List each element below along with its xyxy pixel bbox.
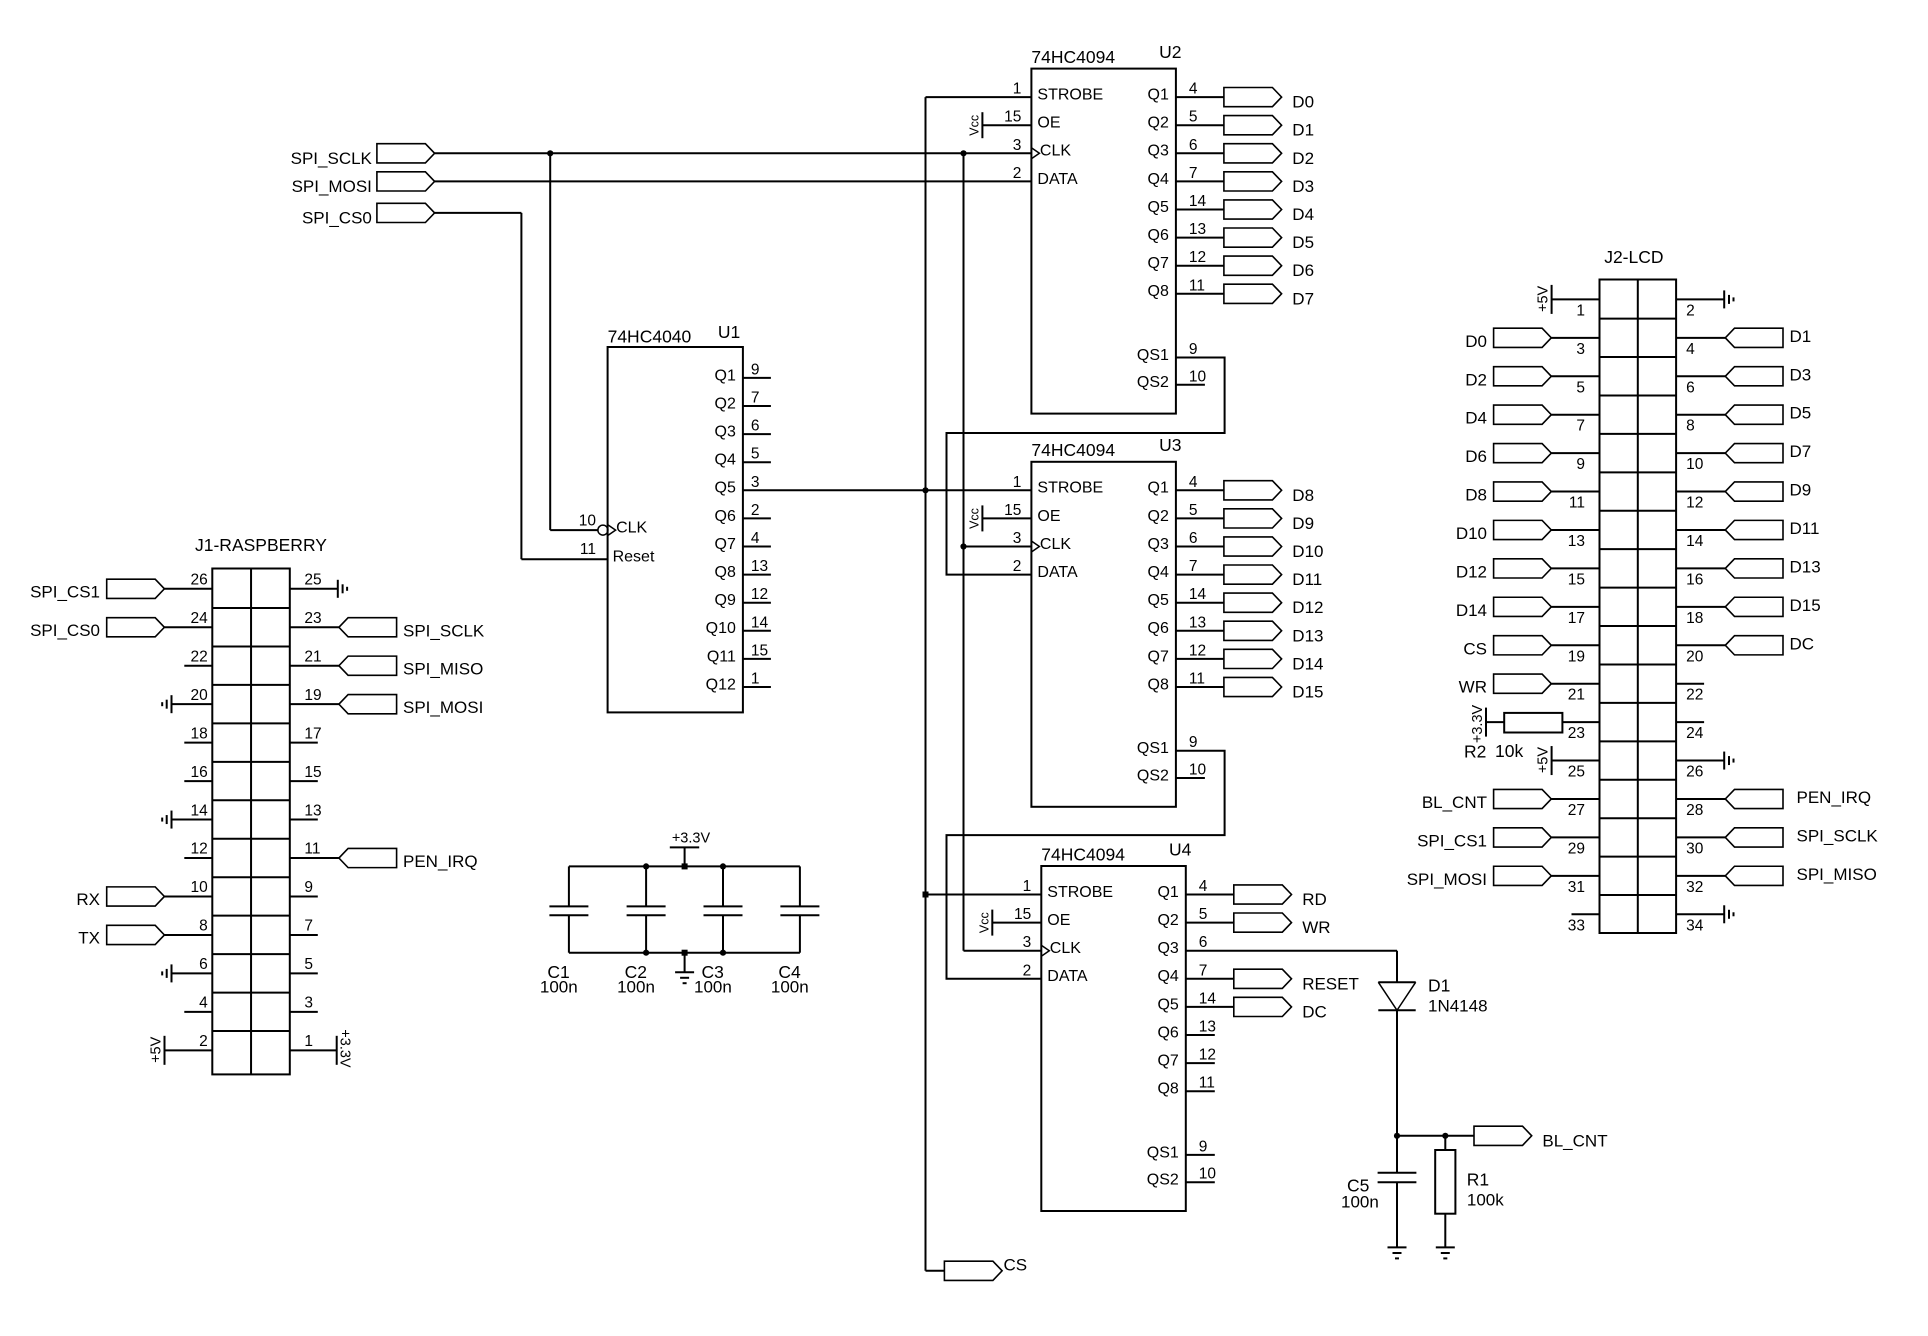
svg-text:6: 6 bbox=[1199, 934, 1208, 951]
svg-text:23: 23 bbox=[304, 610, 321, 627]
U2 pin 10 QS2 bbox=[1176, 384, 1205, 386]
node U4 STROBE tap bbox=[923, 892, 929, 898]
U2 pin 3 CLK bbox=[1031, 148, 1039, 159]
U1 pin 7 Q2 bbox=[743, 405, 771, 407]
svg-text:15: 15 bbox=[1004, 109, 1021, 126]
svg-text:Q3: Q3 bbox=[715, 424, 736, 441]
ground at J1 pin 14 bbox=[172, 819, 213, 821]
svg-text:74HC4094: 74HC4094 bbox=[1031, 47, 1115, 67]
ground at J2 pin 26 bbox=[1676, 760, 1724, 762]
svg-text:D6: D6 bbox=[1292, 261, 1314, 280]
svg-text:4: 4 bbox=[1189, 81, 1198, 98]
svg-text:13: 13 bbox=[1568, 533, 1585, 550]
svg-text:15: 15 bbox=[1014, 906, 1031, 923]
node U1 Q5 / U3 STROBE junction bbox=[922, 487, 928, 493]
svg-text:10: 10 bbox=[579, 512, 597, 529]
ground below R1 bbox=[1444, 1214, 1446, 1248]
svg-text:Vcc: Vcc bbox=[967, 115, 981, 136]
svg-text:DATA: DATA bbox=[1047, 968, 1088, 985]
svg-text:100n: 100n bbox=[617, 978, 655, 997]
svg-text:U1: U1 bbox=[718, 322, 740, 342]
svg-text:PEN_IRQ: PEN_IRQ bbox=[403, 852, 478, 871]
svg-text:OE: OE bbox=[1047, 912, 1070, 929]
net flag D7 bbox=[1725, 444, 1783, 463]
net flag D2 bbox=[1494, 367, 1552, 386]
net flag SPI_CS0 (input) bbox=[377, 203, 435, 222]
power +3.3V feeding rail bbox=[670, 846, 699, 848]
svg-text:2: 2 bbox=[199, 1033, 208, 1050]
U4 Q2 wire to flag bbox=[1186, 922, 1234, 924]
svg-text:U3: U3 bbox=[1159, 435, 1181, 455]
wire D1 cathode down to BL_CNT node bbox=[1396, 1010, 1398, 1136]
svg-text:J2-LCD: J2-LCD bbox=[1604, 247, 1663, 267]
svg-text:Q3: Q3 bbox=[1148, 536, 1169, 553]
svg-text:D10: D10 bbox=[1456, 524, 1487, 543]
net flag SPI_CS1 bbox=[1494, 828, 1552, 847]
svg-text:D9: D9 bbox=[1790, 481, 1812, 500]
svg-text:QS2: QS2 bbox=[1137, 767, 1169, 784]
U1 pin 13 Q8 bbox=[743, 574, 771, 576]
svg-text:SPI_MOSI: SPI_MOSI bbox=[292, 177, 372, 196]
ground at J1 pin 20 bbox=[172, 703, 213, 705]
svg-text:14: 14 bbox=[191, 802, 209, 819]
net flag RD (output) bbox=[1234, 885, 1292, 904]
net flag D4 (output) bbox=[1224, 200, 1282, 219]
node C3 bottom rail bbox=[720, 950, 726, 956]
svg-text:+5V: +5V bbox=[1536, 285, 1552, 312]
net flag D10 bbox=[1494, 520, 1552, 539]
svg-text:Q6: Q6 bbox=[1157, 1024, 1178, 1041]
resistor R2 10k bbox=[1504, 713, 1562, 733]
net flag D6 bbox=[1494, 444, 1552, 463]
svg-text:20: 20 bbox=[1686, 648, 1704, 665]
svg-text:Q5: Q5 bbox=[1157, 996, 1178, 1013]
svg-text:3: 3 bbox=[1013, 137, 1022, 154]
IC U2 74HC4094 body bbox=[1031, 69, 1176, 414]
svg-text:D7: D7 bbox=[1790, 442, 1812, 461]
svg-text:2: 2 bbox=[1013, 165, 1022, 182]
svg-text:Q1: Q1 bbox=[1157, 884, 1178, 901]
svg-text:CS: CS bbox=[1463, 639, 1487, 658]
svg-text:R1: R1 bbox=[1467, 1169, 1489, 1189]
svg-text:J1-RASPBERRY: J1-RASPBERRY bbox=[195, 535, 327, 555]
ground below C5 bbox=[1396, 1182, 1398, 1247]
wire U1 Q5 to U3 STROBE bbox=[743, 489, 1032, 491]
power +3.3V at J1 pin 1 bbox=[290, 1049, 337, 1051]
U4 Q6 stub bbox=[1186, 1034, 1215, 1036]
svg-text:D3: D3 bbox=[1292, 177, 1314, 196]
svg-text:D9: D9 bbox=[1292, 514, 1314, 533]
svg-text:Q6: Q6 bbox=[1148, 620, 1169, 637]
svg-text:4: 4 bbox=[1189, 474, 1198, 491]
svg-text:D10: D10 bbox=[1292, 542, 1323, 561]
node ground stem / bottom rail bbox=[682, 950, 688, 956]
svg-text:100n: 100n bbox=[540, 978, 578, 997]
svg-text:D7: D7 bbox=[1292, 289, 1314, 308]
svg-text:12: 12 bbox=[1199, 1047, 1216, 1064]
net flag PEN_IRQ bbox=[1725, 789, 1783, 808]
svg-text:15: 15 bbox=[1004, 502, 1021, 519]
net flag D13 bbox=[1725, 559, 1783, 578]
svg-text:+3.3V: +3.3V bbox=[672, 831, 711, 847]
net flag D12 bbox=[1494, 559, 1552, 578]
svg-text:12: 12 bbox=[1189, 642, 1206, 659]
svg-text:Q7: Q7 bbox=[1148, 255, 1169, 272]
power +5V at J2 pin 25 bbox=[1552, 760, 1600, 762]
svg-text:16: 16 bbox=[191, 764, 208, 781]
svg-text:5: 5 bbox=[1189, 502, 1198, 519]
svg-text:1: 1 bbox=[1013, 474, 1022, 491]
svg-text:+3.3V: +3.3V bbox=[1470, 704, 1486, 743]
power +5V at J1 pin 2 bbox=[165, 1049, 213, 1051]
svg-text:1: 1 bbox=[1013, 81, 1022, 98]
svg-text:10: 10 bbox=[1189, 368, 1207, 385]
svg-text:D1: D1 bbox=[1428, 976, 1450, 996]
svg-text:11: 11 bbox=[1189, 671, 1205, 688]
svg-text:3: 3 bbox=[304, 995, 313, 1012]
wire U2 QS1 to U3 DATA bbox=[947, 358, 1225, 575]
net flag DC (output) bbox=[1234, 997, 1292, 1016]
node C3 top rail bbox=[720, 863, 726, 869]
svg-text:13: 13 bbox=[751, 558, 768, 575]
svg-text:Q7: Q7 bbox=[715, 536, 736, 553]
U4 pin 10 QS2 bbox=[1186, 1181, 1215, 1183]
capacitor C1 100n bbox=[568, 866, 570, 906]
svg-text:2: 2 bbox=[751, 502, 760, 519]
svg-text:WR: WR bbox=[1459, 678, 1487, 697]
wire U2 STROBE bbox=[926, 96, 1032, 98]
svg-text:3: 3 bbox=[751, 474, 760, 491]
net flag BL_CNT (output) bbox=[1474, 1126, 1532, 1145]
wire SPI_SCLK horizontal to U2 CLK bbox=[435, 152, 1032, 154]
svg-text:14: 14 bbox=[1199, 990, 1217, 1007]
U1 pin 14 Q10 bbox=[743, 630, 771, 632]
net flag SPI_MOSI (input) bbox=[377, 172, 435, 191]
svg-text:D3: D3 bbox=[1790, 365, 1812, 384]
svg-text:15: 15 bbox=[1568, 571, 1585, 588]
svg-text:DATA: DATA bbox=[1037, 171, 1078, 188]
svg-text:PEN_IRQ: PEN_IRQ bbox=[1797, 788, 1872, 807]
svg-text:RX: RX bbox=[76, 890, 100, 909]
svg-text:DATA: DATA bbox=[1037, 564, 1078, 581]
U4 Q7 stub bbox=[1186, 1062, 1215, 1064]
svg-text:31: 31 bbox=[1568, 879, 1585, 896]
U4 pin 3 CLK bbox=[1041, 945, 1049, 956]
svg-text:RD: RD bbox=[1302, 890, 1327, 909]
svg-text:100n: 100n bbox=[694, 978, 732, 997]
svg-text:CLK: CLK bbox=[1050, 940, 1081, 957]
svg-text:D14: D14 bbox=[1456, 601, 1487, 620]
IC U1 74HC4040 body bbox=[608, 347, 743, 712]
net flag D1 (output) bbox=[1224, 116, 1282, 135]
svg-text:BL_CNT: BL_CNT bbox=[1422, 793, 1487, 812]
svg-text:STROBE: STROBE bbox=[1037, 480, 1103, 497]
svg-text:D4: D4 bbox=[1292, 205, 1314, 224]
svg-text:13: 13 bbox=[1189, 614, 1206, 631]
net flag D10 (output) bbox=[1224, 537, 1282, 556]
svg-text:Q5: Q5 bbox=[1148, 592, 1169, 609]
net flag D2 (output) bbox=[1224, 144, 1282, 163]
U1 pin 4 Q7 bbox=[743, 546, 771, 548]
svg-text:5: 5 bbox=[1189, 109, 1198, 126]
svg-text:Q2: Q2 bbox=[715, 395, 736, 412]
svg-text:Q8: Q8 bbox=[1148, 676, 1169, 693]
net flag D15 bbox=[1725, 597, 1783, 616]
node C2 bottom rail bbox=[643, 950, 649, 956]
svg-text:QS1: QS1 bbox=[1137, 740, 1169, 757]
wire U3 QS1 to U4 DATA bbox=[947, 751, 1225, 979]
capacitor C4 100n bbox=[799, 866, 801, 906]
svg-text:D4: D4 bbox=[1465, 409, 1487, 428]
svg-text:D11: D11 bbox=[1292, 570, 1322, 589]
svg-text:14: 14 bbox=[751, 614, 769, 631]
svg-text:6: 6 bbox=[199, 956, 208, 973]
svg-text:STROBE: STROBE bbox=[1047, 884, 1113, 901]
svg-text:D8: D8 bbox=[1292, 486, 1314, 505]
svg-text:Q9: Q9 bbox=[715, 592, 736, 609]
node SPI_SCLK / U1 CLK branch bbox=[547, 150, 553, 156]
svg-text:74HC4094: 74HC4094 bbox=[1031, 440, 1115, 460]
capacitor C5 100n bbox=[1396, 1136, 1398, 1173]
svg-text:D15: D15 bbox=[1292, 683, 1323, 702]
node SPI_SCLK / U3+U4 CLK branch bbox=[960, 150, 966, 156]
svg-text:SPI_SCLK: SPI_SCLK bbox=[1797, 826, 1879, 845]
net flag SPI_SCLK bbox=[1725, 828, 1783, 847]
svg-text:DC: DC bbox=[1302, 1002, 1327, 1021]
net flag D9 bbox=[1725, 482, 1783, 501]
svg-text:Q8: Q8 bbox=[1157, 1081, 1178, 1098]
U1 pin 9 Q1 bbox=[743, 377, 771, 379]
svg-text:1: 1 bbox=[304, 1033, 313, 1050]
svg-text:12: 12 bbox=[751, 586, 768, 603]
net flag D15 (output) bbox=[1224, 677, 1282, 696]
svg-text:10: 10 bbox=[191, 879, 209, 896]
node D1/C5/BL_CNT bbox=[1394, 1133, 1400, 1139]
svg-text:15: 15 bbox=[304, 764, 321, 781]
svg-text:Q4: Q4 bbox=[715, 452, 736, 469]
svg-text:4: 4 bbox=[1686, 341, 1695, 358]
svg-text:SPI_MISO: SPI_MISO bbox=[403, 660, 483, 679]
net flag SPI_SCLK bbox=[339, 618, 397, 637]
net flag D0 (output) bbox=[1224, 88, 1282, 107]
svg-text:15: 15 bbox=[751, 642, 768, 659]
svg-text:11: 11 bbox=[1199, 1075, 1215, 1092]
node U3 CLK tap bbox=[960, 543, 966, 549]
wire to U3 CLK bbox=[964, 546, 1032, 548]
svg-text:Q5: Q5 bbox=[715, 480, 736, 497]
svg-text:74HC4094: 74HC4094 bbox=[1041, 844, 1125, 864]
net flag D1 bbox=[1725, 328, 1783, 347]
svg-text:34: 34 bbox=[1686, 917, 1704, 934]
net flag D12 (output) bbox=[1224, 593, 1282, 612]
svg-text:7: 7 bbox=[304, 918, 313, 935]
svg-text:21: 21 bbox=[304, 648, 321, 665]
net flag D3 (output) bbox=[1224, 172, 1282, 191]
svg-text:100n: 100n bbox=[1341, 1193, 1379, 1212]
svg-text:DC: DC bbox=[1790, 634, 1815, 653]
svg-text:SPI_MISO: SPI_MISO bbox=[1797, 865, 1877, 884]
svg-text:U4: U4 bbox=[1169, 839, 1192, 859]
power +3.3V at R2 bbox=[1486, 721, 1504, 723]
svg-text:D2: D2 bbox=[1292, 149, 1314, 168]
svg-text:13: 13 bbox=[1199, 1019, 1216, 1036]
wire to U4 CLK bbox=[964, 950, 1042, 952]
svg-text:Q3: Q3 bbox=[1148, 143, 1169, 160]
net flag SPI_SCLK (input) bbox=[377, 144, 435, 163]
U1 pin 5 Q4 bbox=[743, 461, 771, 463]
svg-text:30: 30 bbox=[1686, 840, 1704, 857]
svg-text:13: 13 bbox=[1189, 221, 1206, 238]
net flag CS bbox=[944, 1261, 1002, 1280]
svg-text:SPI_CS1: SPI_CS1 bbox=[1417, 831, 1487, 850]
svg-text:SPI_MOSI: SPI_MOSI bbox=[403, 698, 483, 717]
net flag D11 (output) bbox=[1224, 565, 1282, 584]
svg-text:8: 8 bbox=[1686, 418, 1695, 435]
svg-text:Q12: Q12 bbox=[706, 676, 736, 693]
svg-text:QS1: QS1 bbox=[1137, 347, 1169, 364]
svg-text:74HC4040: 74HC4040 bbox=[608, 326, 692, 346]
svg-text:24: 24 bbox=[191, 610, 209, 627]
svg-text:33: 33 bbox=[1568, 917, 1585, 934]
svg-text:TX: TX bbox=[78, 929, 100, 948]
svg-text:D11: D11 bbox=[1790, 519, 1820, 538]
svg-text:14: 14 bbox=[1686, 533, 1704, 550]
svg-text:9: 9 bbox=[1199, 1138, 1208, 1155]
svg-text:29: 29 bbox=[1568, 840, 1585, 857]
svg-text:BL_CNT: BL_CNT bbox=[1542, 1131, 1607, 1150]
svg-text:20: 20 bbox=[191, 687, 209, 704]
svg-text:11: 11 bbox=[1189, 277, 1205, 294]
svg-text:Q2: Q2 bbox=[1157, 912, 1178, 929]
net flag D6 (output) bbox=[1224, 256, 1282, 275]
svg-text:7: 7 bbox=[1189, 165, 1198, 182]
wire to CS flag bbox=[926, 1270, 945, 1272]
net flag SPI_MISO bbox=[339, 656, 397, 675]
IC U4 74HC4094 body bbox=[1041, 866, 1186, 1211]
wire STROBE vertical bus (U2/U3/U4 STROBE to CS flag) bbox=[925, 97, 927, 1271]
svg-text:9: 9 bbox=[751, 361, 760, 378]
svg-text:Q6: Q6 bbox=[1148, 227, 1169, 244]
svg-text:D5: D5 bbox=[1292, 233, 1314, 252]
svg-text:10: 10 bbox=[1199, 1166, 1217, 1183]
svg-text:8: 8 bbox=[199, 918, 208, 935]
svg-text:Q1: Q1 bbox=[715, 367, 736, 384]
wire U4 Q3 to D1 anode bbox=[1186, 950, 1397, 952]
net flag D13 (output) bbox=[1224, 621, 1282, 640]
svg-text:Q7: Q7 bbox=[1157, 1053, 1178, 1070]
svg-text:19: 19 bbox=[1568, 648, 1585, 665]
svg-text:OE: OE bbox=[1037, 508, 1060, 525]
node R1 tap bbox=[1442, 1133, 1448, 1139]
svg-text:QS1: QS1 bbox=[1147, 1144, 1179, 1161]
ground at J2 pin 34 bbox=[1676, 913, 1724, 915]
svg-text:6: 6 bbox=[1189, 530, 1198, 547]
svg-text:3: 3 bbox=[1023, 934, 1032, 951]
power Vcc at U4 OE bbox=[992, 922, 1041, 924]
svg-text:2: 2 bbox=[1013, 558, 1022, 575]
U3 pin 10 QS2 bbox=[1176, 777, 1205, 779]
net flag PEN_IRQ bbox=[339, 848, 397, 867]
net flag SPI_MOSI bbox=[339, 695, 397, 714]
U4 Q8 stub bbox=[1186, 1090, 1215, 1092]
power Vcc at U2 OE bbox=[982, 124, 1031, 126]
svg-text:27: 27 bbox=[1568, 802, 1585, 819]
svg-text:D15: D15 bbox=[1790, 596, 1821, 615]
capacitor C2 100n bbox=[645, 866, 647, 906]
ground below bottom rail bbox=[684, 953, 686, 973]
svg-text:4: 4 bbox=[751, 530, 760, 547]
wire SPI_CS0 to U1 Reset bbox=[435, 212, 522, 214]
svg-text:CLK: CLK bbox=[616, 520, 647, 537]
svg-text:11: 11 bbox=[1569, 495, 1585, 512]
U1 pin 6 Q3 bbox=[743, 433, 771, 435]
svg-text:100n: 100n bbox=[771, 978, 809, 997]
svg-text:QS2: QS2 bbox=[1137, 374, 1169, 391]
svg-text:+5V: +5V bbox=[1536, 747, 1552, 774]
svg-text:2: 2 bbox=[1686, 302, 1695, 319]
svg-text:1N4148: 1N4148 bbox=[1428, 997, 1488, 1016]
svg-text:18: 18 bbox=[191, 725, 208, 742]
wire ground bottom rail bbox=[569, 952, 800, 954]
net flag D8 bbox=[1494, 482, 1552, 501]
svg-text:3: 3 bbox=[1013, 530, 1022, 547]
svg-text:4: 4 bbox=[199, 995, 208, 1012]
svg-text:Q1: Q1 bbox=[1148, 87, 1169, 104]
U1 pin 1 Q12 bbox=[743, 686, 771, 688]
svg-text:11: 11 bbox=[580, 541, 596, 558]
svg-text:5: 5 bbox=[304, 956, 313, 973]
svg-text:32: 32 bbox=[1686, 879, 1703, 896]
svg-text:18: 18 bbox=[1686, 610, 1703, 627]
net flag D14 (output) bbox=[1224, 649, 1282, 668]
svg-text:28: 28 bbox=[1686, 802, 1703, 819]
net flag D7 (output) bbox=[1224, 284, 1282, 303]
svg-text:Q8: Q8 bbox=[715, 564, 736, 581]
node C2 top rail bbox=[643, 863, 649, 869]
svg-text:SPI_SCLK: SPI_SCLK bbox=[291, 149, 373, 168]
U1 pin 2 Q6 bbox=[743, 517, 771, 519]
svg-text:10: 10 bbox=[1189, 762, 1207, 779]
power Vcc at U3 OE bbox=[982, 517, 1031, 519]
svg-text:1: 1 bbox=[1576, 302, 1585, 319]
connector J1-RASPBERRY body bbox=[212, 569, 289, 1075]
svg-text:+5V: +5V bbox=[149, 1036, 165, 1063]
U4 Q5 wire to flag bbox=[1186, 1006, 1234, 1008]
svg-text:Q10: Q10 bbox=[706, 620, 736, 637]
U1 pin 10 CLK (inverted clock input) bbox=[598, 525, 608, 535]
svg-text:12: 12 bbox=[1686, 495, 1703, 512]
svg-text:D8: D8 bbox=[1465, 486, 1487, 505]
net flag DC bbox=[1725, 636, 1783, 655]
svg-text:7: 7 bbox=[1189, 558, 1198, 575]
svg-text:5: 5 bbox=[751, 446, 760, 463]
svg-text:CLK: CLK bbox=[1040, 536, 1071, 553]
power +5V at J2 pin 1 bbox=[1552, 298, 1600, 300]
svg-text:STROBE: STROBE bbox=[1037, 87, 1103, 104]
svg-text:24: 24 bbox=[1686, 725, 1704, 742]
svg-text:Q5: Q5 bbox=[1148, 199, 1169, 216]
node power stem / top rail bbox=[682, 863, 688, 869]
svg-text:Q7: Q7 bbox=[1148, 648, 1169, 665]
net flag WR (output) bbox=[1234, 913, 1292, 932]
net flag BL_CNT bbox=[1494, 789, 1552, 808]
svg-text:Vcc: Vcc bbox=[977, 912, 991, 933]
U4 Q4 wire to flag bbox=[1186, 978, 1234, 980]
svg-text:D0: D0 bbox=[1465, 332, 1487, 351]
net flag CS bbox=[1494, 636, 1552, 655]
svg-text:14: 14 bbox=[1189, 586, 1207, 603]
svg-text:26: 26 bbox=[1686, 764, 1703, 781]
